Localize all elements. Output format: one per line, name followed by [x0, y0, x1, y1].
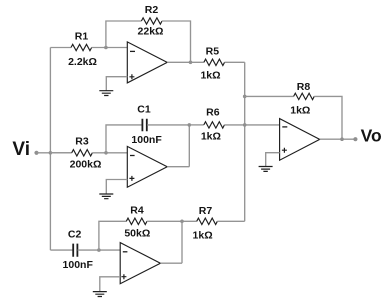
- wire U4 output to Vo: [320, 138, 356, 140]
- node junction R4/R7/output: [180, 220, 184, 224]
- svg-text:R4: R4: [130, 204, 144, 216]
- wire summing bus vertical: [244, 62, 246, 221]
- svg-text:Vi: Vi: [12, 139, 30, 160]
- svg-text:R6: R6: [206, 107, 220, 119]
- wire C1 right leg to junction: [147, 124, 189, 126]
- resistor R1: [71, 44, 92, 50]
- resistor R2: [141, 18, 162, 24]
- label C2: [68, 229, 82, 241]
- wire top row: bus to R1: [50, 47, 71, 49]
- label R8 value 1k: [290, 105, 310, 117]
- svg-text:1kΩ: 1kΩ: [193, 230, 213, 242]
- svg-text:R5: R5: [206, 46, 220, 58]
- node Vi terminal dot: [34, 151, 38, 155]
- svg-text:100nF: 100nF: [63, 259, 94, 271]
- node junction R2/output: [189, 61, 193, 65]
- node Vo terminal dot: [353, 137, 357, 141]
- wire R1 to op-amp U1 inverting input: [92, 47, 128, 49]
- wire U2 output to R6 leg: [167, 166, 189, 168]
- wire middle row: Vi to R3: [50, 152, 71, 154]
- wire Vi input to bus: [37, 152, 72, 154]
- svg-text:R1: R1: [75, 30, 89, 42]
- node junction Vi-bus: [49, 151, 53, 155]
- label R7: [199, 205, 213, 217]
- label R4: [130, 204, 144, 216]
- wire U3 output: [160, 262, 182, 264]
- label R3 value 200k: [70, 159, 102, 171]
- svg-text:R8: R8: [297, 81, 311, 93]
- wire U1 non-inverting stub: [106, 77, 127, 91]
- wire R8 feedback right leg down to output: [314, 96, 342, 139]
- wire U3 non-inverting stub: [100, 277, 120, 292]
- wire R3 to op-amp U2 inverting input: [92, 152, 127, 154]
- label R5: [206, 46, 220, 58]
- label C1 value 100nF: [131, 134, 162, 146]
- label R1: [75, 30, 89, 42]
- resistor R6: [204, 122, 225, 128]
- wire U4 non-inverting stub: [266, 153, 280, 167]
- node junction C2/R4: [97, 248, 101, 252]
- wire vertical input bus: [49, 48, 51, 251]
- label R2: [145, 4, 159, 16]
- svg-text:50kΩ: 50kΩ: [124, 228, 150, 240]
- resistor R8: [294, 93, 315, 99]
- resistor R5: [204, 59, 225, 65]
- node junction R8/output: [340, 137, 344, 141]
- capacitor C1: [142, 119, 146, 131]
- wire U2 non-inverting stub: [106, 180, 127, 195]
- ground U4: [259, 167, 273, 172]
- ground U2: [99, 194, 113, 199]
- svg-text:100nF: 100nF: [131, 134, 162, 146]
- label R6 value 1k: [201, 131, 221, 143]
- op-amp U3: [120, 243, 160, 284]
- svg-text:R3: R3: [75, 135, 89, 147]
- label C2 value 100nF: [63, 259, 94, 271]
- label R4 value 50k: [124, 228, 150, 240]
- svg-text:Vo: Vo: [361, 126, 382, 146]
- label R5 value 1k: [200, 69, 220, 81]
- wire C1 feedback left leg: [106, 125, 142, 153]
- label C1: [137, 103, 151, 115]
- label R3: [75, 135, 89, 147]
- op-amp U4: [280, 119, 320, 161]
- wire R4 feedback left leg: [99, 221, 126, 250]
- node junction R3/C1: [104, 151, 108, 155]
- svg-text:R7: R7: [199, 205, 213, 217]
- wire R6 left leg: [189, 124, 204, 126]
- label R6: [206, 107, 220, 119]
- label R8: [297, 81, 311, 93]
- wire R4 to R7: [147, 220, 197, 222]
- resistor R4: [126, 218, 147, 224]
- wire R6 to final op-amp inverting input: [224, 124, 279, 126]
- wire R2 feedback right leg to U1 output: [162, 21, 191, 62]
- capacitor C2: [73, 244, 77, 257]
- resistor R7: [197, 218, 218, 224]
- label Vi: [12, 139, 30, 160]
- wire R7 to summing bus: [217, 220, 244, 222]
- svg-text:200kΩ: 200kΩ: [70, 159, 102, 171]
- wire R5 to summing bus: [225, 61, 245, 63]
- wire C1 junction down to U2 output: [188, 125, 190, 167]
- op-amp U1: [127, 42, 167, 83]
- node junction C1/R6: [188, 123, 192, 127]
- node junction bus/R8: [243, 95, 247, 99]
- svg-text:1kΩ: 1kΩ: [290, 105, 310, 117]
- op-amp U2: [127, 146, 167, 187]
- node junction bus/R6: [243, 123, 247, 127]
- svg-text:1kΩ: 1kΩ: [200, 69, 220, 81]
- label R7 value 1k: [193, 230, 213, 242]
- wire R2 feedback left leg: [106, 21, 141, 48]
- svg-text:2.2kΩ: 2.2kΩ: [68, 56, 97, 68]
- label Vo: [361, 126, 382, 146]
- ground U1: [99, 91, 113, 96]
- wire U1 output to R5: [167, 61, 204, 63]
- svg-text:22kΩ: 22kΩ: [138, 26, 164, 38]
- svg-text:C2: C2: [68, 229, 82, 241]
- node junction R1/R2: [104, 46, 108, 50]
- wire R8 feedback left leg: [245, 95, 294, 97]
- svg-text:1kΩ: 1kΩ: [201, 131, 221, 143]
- wire output leg up to R4/R7 junction: [181, 221, 183, 263]
- label R2 value 22k: [138, 26, 164, 38]
- svg-text:C1: C1: [137, 103, 151, 115]
- ground U3: [93, 292, 107, 297]
- wire bottom row: bus to C2: [50, 249, 73, 251]
- resistor R3: [72, 150, 93, 156]
- label R1 value 2.2k: [68, 56, 97, 68]
- wire C2 to op-amp U3 inverting input: [78, 249, 121, 251]
- svg-text:R2: R2: [145, 4, 159, 16]
